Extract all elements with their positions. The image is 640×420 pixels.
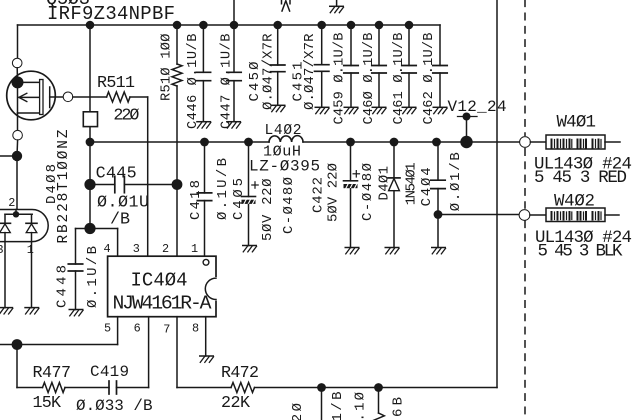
svg-text:5ØV 22Ø: 5ØV 22Ø	[325, 163, 341, 222]
svg-text:NJW4161R-A: NJW4161R-A	[113, 293, 212, 315]
svg-text:R477: R477	[33, 364, 72, 383]
svg-text:Ø.Ø47/X7R: Ø.Ø47/X7R	[302, 33, 318, 110]
svg-text:W4Ø1: W4Ø1	[557, 113, 597, 133]
svg-text:C4Ø4: C4Ø4	[419, 167, 435, 206]
svg-text:Ø.Ø33 /B: Ø.Ø33 /B	[76, 397, 153, 415]
svg-text:Ø.Ø47/X7R: Ø.Ø47/X7R	[260, 33, 276, 110]
svg-text:3: 3	[0, 243, 4, 257]
svg-text:C462 Ø.1U/B: C462 Ø.1U/B	[422, 33, 437, 125]
svg-text:C422: C422	[311, 177, 327, 213]
svg-text:22K: 22K	[221, 394, 250, 413]
svg-text:22Ø: 22Ø	[290, 403, 306, 420]
svg-text:C446 Ø.1U/B: C446 Ø.1U/B	[186, 34, 201, 129]
svg-text:7: 7	[163, 323, 170, 337]
svg-text:IC4Ø4: IC4Ø4	[131, 270, 188, 292]
svg-text:RB228T1ØØNZ: RB228T1ØØNZ	[56, 129, 72, 243]
svg-text:IRF9Z34NPBF: IRF9Z34NPBF	[47, 3, 175, 25]
svg-text:C459 Ø.1U/B: C459 Ø.1U/B	[333, 33, 348, 125]
svg-text:Ø.1Ø: Ø.1Ø	[352, 392, 368, 420]
svg-text:C419: C419	[90, 363, 129, 381]
svg-text:Ø.Ø1/B: Ø.Ø1/B	[448, 152, 464, 211]
svg-text:R511: R511	[97, 74, 135, 93]
svg-text:1/B: 1/B	[330, 392, 346, 420]
svg-text:C46Ø Ø.1U/B: C46Ø Ø.1U/B	[362, 33, 377, 125]
svg-text:5ØV 22Ø: 5ØV 22Ø	[260, 179, 276, 242]
svg-text:4: 4	[104, 242, 111, 256]
svg-text:1: 1	[191, 242, 198, 256]
svg-text:5 45 3 BLK: 5 45 3 BLK	[538, 242, 624, 262]
svg-text:3: 3	[133, 242, 140, 256]
svg-text:LZ-Ø395: LZ-Ø395	[249, 158, 320, 176]
svg-text:22Ø: 22Ø	[113, 107, 139, 126]
svg-text:Ø.1U/B: Ø.1U/B	[215, 158, 231, 220]
svg-text:C447 Ø.1U/B: C447 Ø.1U/B	[220, 33, 235, 129]
svg-text:2: 2	[162, 242, 169, 256]
svg-text:5 45 3 RED: 5 45 3 RED	[534, 168, 627, 188]
svg-text:15K: 15K	[33, 394, 62, 413]
svg-text:C448: C448	[55, 265, 71, 308]
svg-text:W4Ø2: W4Ø2	[554, 192, 595, 212]
svg-text:5: 5	[104, 322, 111, 336]
svg-text:2: 2	[8, 196, 15, 210]
svg-text:8: 8	[192, 322, 199, 336]
svg-text:C-Ø48Ø: C-Ø48Ø	[281, 177, 297, 234]
svg-text:C-Ø48Ø: C-Ø48Ø	[360, 163, 376, 221]
svg-text:6: 6	[134, 322, 141, 336]
svg-text:C445: C445	[96, 165, 137, 184]
svg-text:Ø.1U/B: Ø.1U/B	[85, 246, 101, 308]
svg-text:6B: 6B	[391, 397, 407, 417]
svg-text:1N54Ø1: 1N54Ø1	[404, 162, 420, 205]
svg-text:R472: R472	[221, 364, 259, 383]
svg-text:C461 Ø.1U/B: C461 Ø.1U/B	[392, 33, 407, 125]
svg-text:C4Ø5: C4Ø5	[231, 178, 247, 220]
svg-text:L4Ø2: L4Ø2	[265, 123, 302, 139]
svg-text:/B: /B	[110, 211, 130, 230]
svg-text:1: 1	[27, 243, 34, 257]
svg-text:V12_24: V12_24	[448, 98, 507, 116]
svg-text:R51Ø 1ØØ: R51Ø 1ØØ	[160, 34, 175, 102]
svg-text:D4Ø1: D4Ø1	[376, 166, 392, 201]
